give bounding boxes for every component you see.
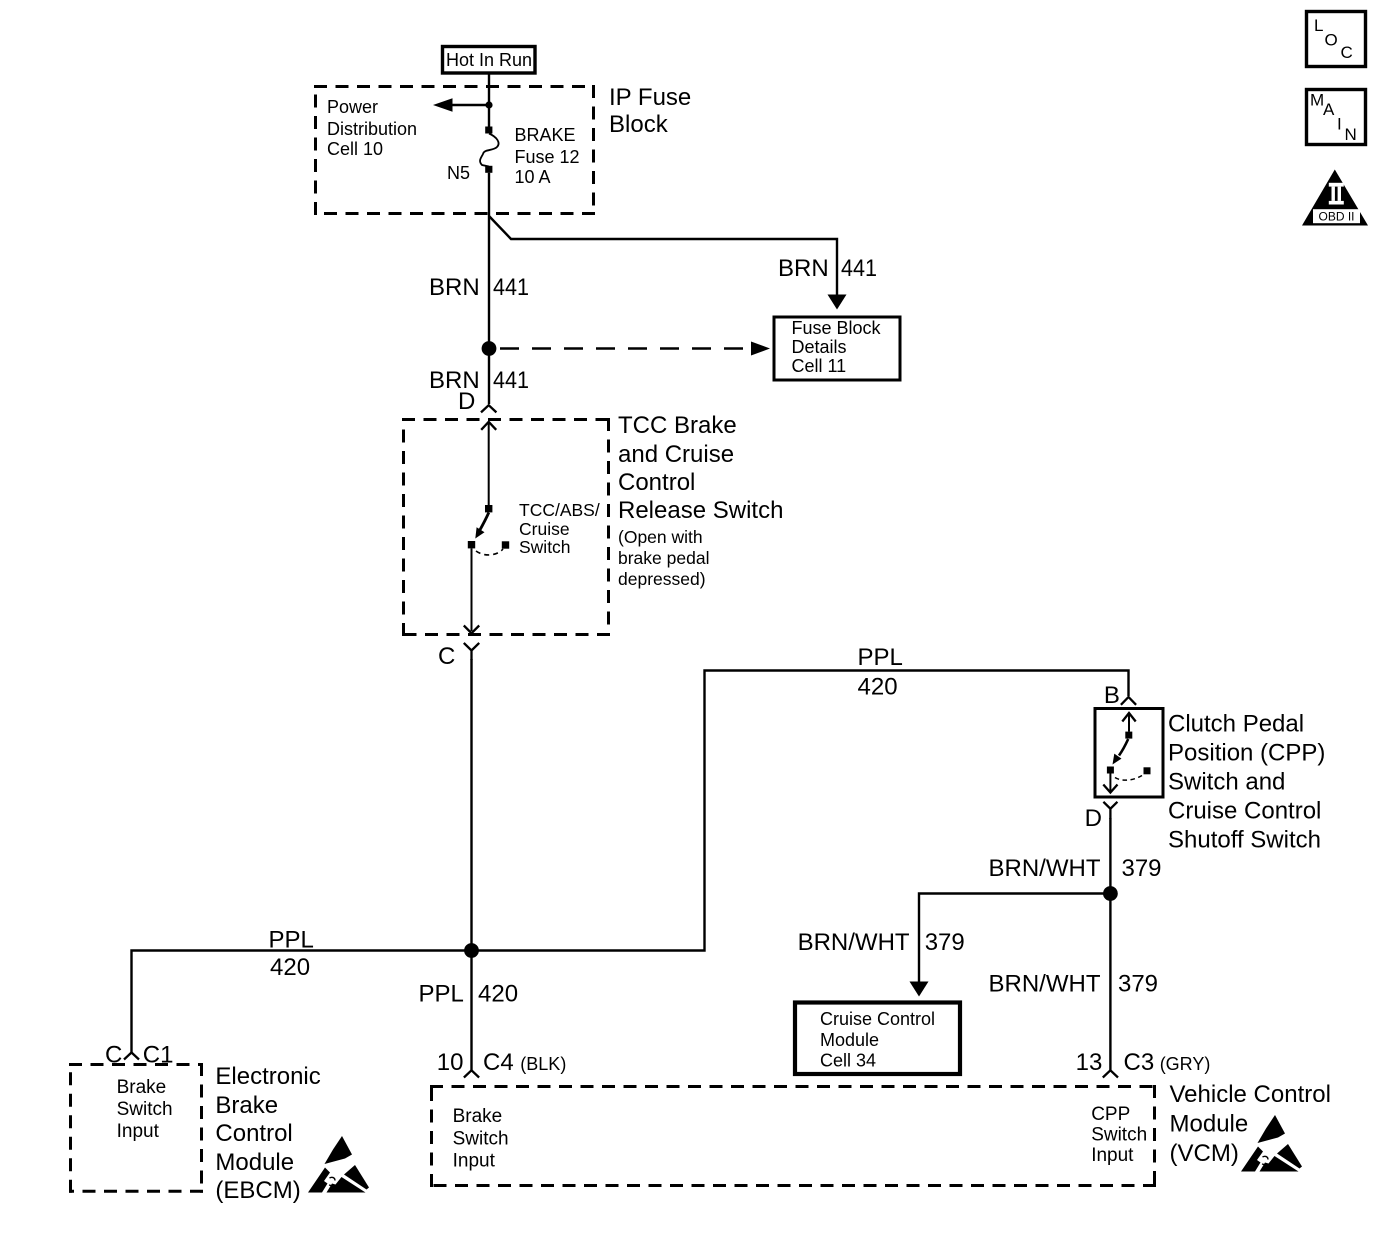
arrow to Power Distribution (433, 98, 489, 111)
svg-text:Switch: Switch (1091, 1125, 1147, 1146)
svg-text:BRN: BRN (778, 255, 829, 282)
svg-text:PPL: PPL (858, 644, 903, 671)
svg-text:N: N (1345, 125, 1357, 144)
Cruise Control Module Cell 34 box (795, 1003, 960, 1075)
wire branch to fuse block details (diagonal + horizontal + down) (489, 216, 837, 296)
wire C connector down to junction S (left circuit) (470, 659, 472, 951)
svg-text:(GRY): (GRY) (1160, 1054, 1211, 1074)
svg-text:Brake: Brake (215, 1092, 278, 1119)
svg-text:PPL: PPL (419, 981, 464, 1008)
wire junction to EBCM (left horizontal + down) (132, 951, 472, 1055)
connector 13/C3 labels (1076, 1049, 1211, 1076)
CPP switch box (1095, 709, 1163, 798)
svg-text:C: C (438, 643, 455, 670)
CPP switch lower contact (1107, 767, 1114, 774)
svg-text:BRAKE: BRAKE (515, 125, 576, 145)
connector C4 chevron (464, 1070, 479, 1077)
dashed reference arrow to Fuse Block Details (500, 342, 770, 356)
svg-text:Cell 11: Cell 11 (792, 356, 847, 376)
svg-text:Brake: Brake (117, 1077, 167, 1098)
TCC switch alternate throw (dashed arc) (476, 549, 503, 555)
svg-text:C: C (1341, 43, 1353, 62)
TCC switch upper contact (485, 505, 492, 512)
svg-text:L: L (1314, 16, 1323, 35)
svg-text:Module: Module (820, 1030, 879, 1050)
svg-text:Input: Input (1091, 1145, 1134, 1166)
LOC page icon (1307, 12, 1366, 67)
BRN 441 label (below junction) (429, 367, 529, 394)
svg-text:Cell 34: Cell 34 (820, 1051, 876, 1071)
wire D down to junction (1109, 818, 1111, 894)
svg-text:Switch: Switch (453, 1129, 509, 1150)
svg-text:C4: C4 (483, 1049, 514, 1076)
connector B chevron (1121, 697, 1136, 705)
svg-text:Clutch Pedal: Clutch Pedal (1168, 711, 1304, 738)
svg-text:PPL: PPL (269, 927, 314, 954)
svg-text:Input: Input (117, 1121, 160, 1142)
OBD II icon (1302, 170, 1368, 226)
svg-text:Module: Module (215, 1149, 294, 1176)
BRAKE Fuse 12 10 A label (515, 125, 580, 187)
svg-text:brake pedal: brake pedal (618, 548, 709, 568)
svg-text:BRN/WHT: BRN/WHT (989, 971, 1101, 998)
CPP switch right contact (1144, 767, 1151, 774)
svg-text:O: O (1325, 31, 1338, 50)
wire junction right and up to CPP switch (472, 671, 1129, 951)
CPP switch alternate throw (dashed arc) (1115, 776, 1142, 781)
BRN/WHT 379 label (lower) (989, 971, 1159, 998)
TCC Brake and Cruise Control Release Switch dashed box (402, 418, 610, 636)
CPP switch blade with arrow (1113, 739, 1129, 765)
svg-text:379: 379 (925, 929, 965, 956)
IP Fuse Block label (609, 84, 691, 138)
svg-text:441: 441 (841, 255, 877, 282)
VCM heading label (1170, 1081, 1331, 1167)
ESD symbol (EBCM) (308, 1136, 369, 1193)
svg-text:Position (CPP): Position (CPP) (1168, 740, 1325, 767)
svg-text:13: 13 (1076, 1049, 1103, 1076)
PPL 420 label (top horizontal) (858, 644, 903, 700)
svg-text:BRN/WHT: BRN/WHT (798, 929, 910, 956)
svg-text:10: 10 (437, 1049, 464, 1076)
svg-text:BRN/WHT: BRN/WHT (989, 855, 1101, 882)
svg-text:TCC Brake: TCC Brake (618, 412, 737, 439)
svg-text:IP Fuse: IP Fuse (609, 84, 691, 111)
svg-text:420: 420 (858, 673, 898, 700)
Hot In Run feed box (443, 47, 536, 74)
svg-text:Vehicle Control: Vehicle Control (1170, 1081, 1331, 1108)
svg-text:I: I (1337, 115, 1342, 134)
svg-text:BRN: BRN (429, 274, 480, 301)
EBCM dashed box (69, 1063, 203, 1193)
svg-text:Electronic: Electronic (215, 1063, 320, 1090)
svg-text:(VCM): (VCM) (1170, 1140, 1239, 1167)
ESD symbol (VCM) (1241, 1115, 1302, 1172)
svg-text:441: 441 (493, 367, 529, 394)
VCM dashed box (430, 1085, 1156, 1187)
svg-text:Switch: Switch (117, 1099, 173, 1120)
CPP switch upper contact (1125, 732, 1132, 739)
node: junction dot to Power Distribution (485, 101, 492, 108)
TCC switch right contact (502, 541, 509, 548)
svg-text:10 A: 10 A (515, 167, 551, 187)
svg-text:B: B (1104, 682, 1120, 709)
EBCM heading label (215, 1063, 320, 1204)
svg-text:Cruise: Cruise (519, 519, 570, 539)
svg-text:Release Switch: Release Switch (618, 497, 783, 524)
svg-text:Cruise Control: Cruise Control (820, 1009, 935, 1029)
TCC heading label (618, 412, 783, 589)
MAIN page icon (1307, 90, 1366, 145)
TCC switch: exit wire with arrow (464, 548, 479, 633)
svg-text:441: 441 (493, 274, 529, 301)
svg-text:(BLK): (BLK) (520, 1054, 566, 1074)
connector C3 chevron (1103, 1070, 1118, 1077)
Clutch Pedal Position label (1168, 711, 1325, 854)
svg-text:379: 379 (1122, 855, 1162, 882)
arrowhead into Fuse Block Details (828, 295, 847, 310)
Power Distribution Cell 10 label (327, 97, 417, 159)
BRN 441 label (above junction) (429, 274, 529, 301)
svg-text:Fuse 12: Fuse 12 (515, 147, 580, 167)
svg-text:Details: Details (792, 337, 847, 357)
connector C1 label (EBCM) (105, 1042, 173, 1069)
svg-text:Switch and: Switch and (1168, 769, 1285, 796)
svg-text:Block: Block (609, 111, 669, 138)
connector C1 chevron (124, 1053, 139, 1060)
svg-text:CPP: CPP (1091, 1104, 1130, 1125)
IP Fuse Block dashed box (314, 85, 595, 215)
svg-text:379: 379 (1118, 971, 1158, 998)
svg-text:OBD II: OBD II (1318, 210, 1354, 224)
svg-text:Fuse Block: Fuse Block (792, 318, 882, 338)
BRN 441 label (right branch) (778, 255, 877, 282)
wire junction down to C3 (1109, 894, 1111, 1071)
svg-text:and Cruise: and Cruise (618, 441, 734, 468)
fuse F12 (BRAKE Fuse 12) (480, 127, 499, 173)
svg-text:N5: N5 (447, 163, 470, 183)
svg-text:TCC/ABS/: TCC/ABS/ (519, 500, 600, 520)
Brake Switch Input label (VCM) (453, 1106, 509, 1172)
svg-text:Input: Input (453, 1151, 496, 1172)
svg-text:depressed): depressed) (618, 569, 706, 589)
svg-text:(Open with: (Open with (618, 527, 703, 547)
PPL 420 label (mid vertical) (419, 981, 519, 1008)
svg-text:420: 420 (270, 954, 310, 981)
connector 10/C4 labels (437, 1049, 567, 1076)
CPP Switch Input label (VCM) (1091, 1104, 1147, 1166)
CPP switch: exit wire with arrow (1103, 774, 1117, 793)
svg-text:A: A (1323, 100, 1335, 119)
BRN/WHT 379 label (upper) (989, 855, 1162, 882)
svg-text:Power: Power (327, 97, 378, 117)
connector D chevron (CPP) (1103, 802, 1117, 819)
svg-text:Hot In Run: Hot In Run (446, 50, 532, 70)
svg-text:Control: Control (618, 469, 695, 496)
svg-text:Cell 10: Cell 10 (327, 139, 383, 159)
svg-text:420: 420 (478, 981, 518, 1008)
node S201 junction dot (482, 341, 497, 356)
svg-text:Shutoff Switch: Shutoff Switch (1168, 827, 1321, 854)
svg-text:D: D (1085, 805, 1102, 832)
svg-text:(EBCM): (EBCM) (215, 1177, 300, 1204)
svg-text:Control: Control (215, 1120, 292, 1147)
svg-text:Brake: Brake (453, 1106, 503, 1127)
Brake Switch Input label (EBCM) (117, 1077, 173, 1142)
Fuse Block Details Cell 11 box (774, 317, 900, 380)
node junction dot BRN/WHT splice (1103, 886, 1118, 901)
svg-text:Switch: Switch (519, 537, 571, 557)
svg-text:Cruise Control: Cruise Control (1168, 798, 1321, 825)
connector D chevron (481, 405, 496, 412)
TCC switch: entry arrow (481, 422, 496, 505)
connector C chevron (464, 643, 479, 660)
PPL 420 label (left horizontal) (269, 927, 314, 982)
wire junction to Cruise Control Module (left + down arrow) (910, 894, 1111, 997)
TCC switch lower contact (468, 541, 475, 548)
BRN/WHT 379 label (left) (798, 929, 965, 956)
svg-text:D: D (458, 388, 475, 415)
TCC switch blade with arrow (475, 513, 489, 539)
wire from Hot In Run down to fuse (488, 73, 490, 127)
svg-text:Distribution: Distribution (327, 119, 417, 139)
node junction dot PPL splice (464, 943, 479, 958)
wire mid junction down to C4 (470, 951, 472, 1071)
wire from fuse down to D connector (488, 173, 490, 404)
svg-text:C3: C3 (1124, 1049, 1155, 1076)
svg-text:Module: Module (1170, 1111, 1249, 1138)
CPP switch: entry arrow (1122, 713, 1135, 732)
TCC/ABS/Cruise Switch label (519, 500, 600, 557)
